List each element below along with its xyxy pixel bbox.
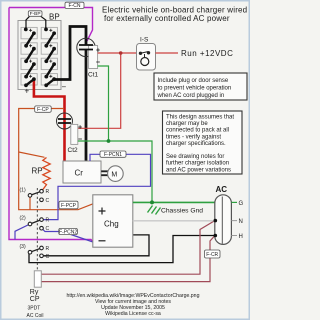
svg-text:F-CN: F-CN [69, 3, 81, 9]
svg-text:R: R [46, 189, 50, 195]
svg-text:Chassies Gnd: Chassies Gnd [161, 208, 203, 215]
svg-text:This design assumes that: This design assumes that [166, 115, 234, 121]
svg-text:Include plug or door sense: Include plug or door sense [158, 78, 229, 84]
svg-text:Wikipedia License cc-sa: Wikipedia License cc-sa [105, 311, 161, 317]
svg-text:H: H [239, 234, 243, 240]
svg-text:3PDT: 3PDT [28, 306, 41, 312]
svg-text:F-PCP: F-PCP [61, 203, 77, 209]
svg-text:F-CP: F-CP [37, 107, 49, 113]
svg-text:charger specifications.: charger specifications. [166, 141, 226, 147]
svg-text:charger may be: charger may be [166, 121, 208, 127]
svg-text:Chg: Chg [104, 220, 119, 229]
svg-text:C: C [46, 198, 50, 204]
svg-text:Ct2: Ct2 [68, 147, 79, 154]
svg-text:N: N [239, 219, 243, 225]
svg-text:BP: BP [49, 13, 60, 22]
svg-text:I-S: I-S [140, 37, 149, 44]
svg-text:−: − [62, 83, 67, 92]
svg-text:to prevent vehicle operation: to prevent vehicle operation [158, 86, 232, 92]
svg-text:and AC power variations: and AC power variations [166, 167, 231, 173]
svg-text:F-CR: F-CR [206, 252, 218, 258]
svg-text:Cr: Cr [75, 169, 84, 178]
svg-text:F-BP: F-BP [30, 11, 41, 17]
svg-text:F-PCN1: F-PCN1 [104, 152, 122, 158]
svg-text:R: R [46, 246, 50, 252]
svg-text:(2): (2) [20, 216, 26, 222]
svg-text:when AC cord plugged in: when AC cord plugged in [157, 93, 225, 99]
svg-text:(1): (1) [20, 188, 26, 194]
svg-text:times - verify against: times - verify against [166, 134, 221, 140]
svg-text:C: C [46, 226, 50, 232]
svg-text:C: C [46, 254, 50, 260]
svg-text:AC: AC [216, 185, 228, 194]
svg-text:R: R [46, 218, 50, 224]
svg-text:Ct1: Ct1 [88, 72, 99, 79]
svg-text:for externally controlled AC p: for externally controlled AC power [104, 14, 230, 23]
svg-text:Run +12VDC: Run +12VDC [181, 49, 233, 58]
svg-text:further charger isolation: further charger isolation [166, 161, 229, 167]
svg-text:F-PCN2: F-PCN2 [59, 229, 77, 235]
svg-text:CP: CP [30, 296, 40, 303]
svg-text:Ry: Ry [30, 289, 39, 296]
svg-text:(3): (3) [20, 244, 26, 250]
svg-text:See drawing notes for: See drawing notes for [166, 154, 224, 160]
svg-text:RP: RP [32, 167, 43, 176]
svg-text:+: + [25, 87, 30, 96]
svg-text:connected to pack at all: connected to pack at all [166, 128, 229, 134]
svg-text:M: M [111, 171, 117, 178]
svg-text:G: G [239, 201, 244, 207]
svg-text:AC Coil: AC Coil [27, 313, 44, 319]
